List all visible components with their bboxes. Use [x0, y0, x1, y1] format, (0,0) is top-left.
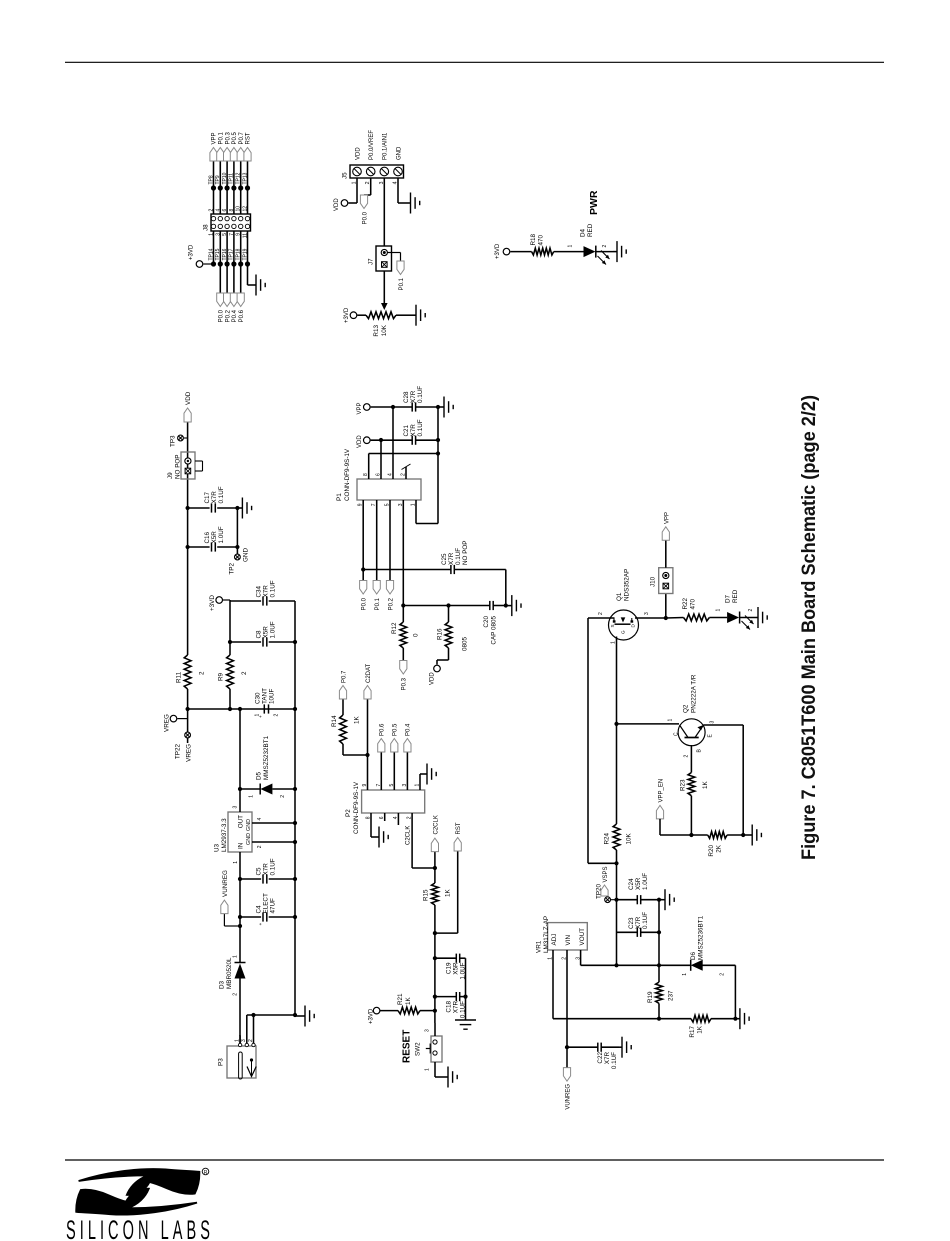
ground at R20 [743, 834, 752, 836]
ground at R13 [412, 314, 416, 316]
node P0.5 flag [230, 148, 237, 162]
svg-text:1K: 1K [354, 715, 361, 724]
resistor R22 [666, 617, 684, 620]
svg-text:2: 2 [274, 714, 280, 717]
wire VR1 VIN line [566, 950, 568, 1047]
svg-text:CONN-DF9-9S-1V: CONN-DF9-9S-1V [344, 448, 351, 501]
svg-text:S: S [610, 624, 615, 627]
svg-text:VUNREG: VUNREG [566, 1084, 572, 1110]
svg-text:SILICON LABS: SILICON LABS [66, 1214, 214, 1241]
svg-text:C30: C30 [255, 692, 262, 704]
resistor R12 [400, 622, 407, 648]
svg-text:R9: R9 [218, 672, 225, 681]
wire U3 GND pins [252, 841, 295, 843]
svg-text:Figure 7. C8051T600 Main Board: Figure 7. C8051T600 Main Board Schematic… [798, 395, 820, 860]
svg-text:Q1: Q1 [616, 592, 623, 601]
svg-text:R19: R19 [647, 991, 654, 1003]
svg-text:GND: GND [246, 833, 252, 845]
svg-text:LM2937-3.3: LM2937-3.3 [221, 818, 228, 852]
wire P1 pin5 [389, 500, 391, 581]
svg-text:1: 1 [425, 1068, 431, 1071]
wire J8 row 6 [247, 231, 249, 285]
svg-text:2: 2 [199, 671, 206, 675]
capacitor C28 [371, 406, 393, 408]
connector P2 CONN-DF9-9S-1V [362, 790, 425, 813]
svg-text:G: G [621, 630, 626, 634]
svg-text:ADJ: ADJ [551, 934, 558, 946]
svg-text:P3: P3 [218, 1058, 225, 1066]
svg-text:1: 1 [682, 973, 688, 976]
svg-text:P0.0/VREF: P0.0/VREF [369, 130, 375, 160]
svg-text:P0.1: P0.1 [375, 597, 381, 610]
svg-text:TP11: TP11 [229, 173, 235, 185]
svg-text:C25: C25 [441, 553, 448, 565]
wire VREG junction [188, 708, 295, 710]
svg-text:Q2: Q2 [683, 704, 690, 713]
wire P1 pin3 [402, 500, 404, 622]
svg-text:2: 2 [684, 755, 690, 758]
svg-text:VOUT: VOUT [579, 928, 586, 946]
svg-text:1K: 1K [445, 888, 452, 897]
svg-text:C23: C23 [628, 917, 635, 929]
svg-text:RESET: RESET [402, 1030, 413, 1063]
svg-text:R14: R14 [331, 715, 338, 727]
ground at power rail [295, 1015, 305, 1017]
svg-text:P0.2: P0.2 [388, 597, 394, 610]
svg-text:X7R: X7R [263, 863, 270, 876]
svg-text:R: R [204, 1170, 208, 1176]
potentiometer R13 [357, 314, 366, 316]
node VPP flag [210, 148, 217, 162]
svg-text:+3VD: +3VD [495, 243, 501, 259]
svg-text:VREG: VREG [164, 714, 171, 732]
svg-text:R16: R16 [437, 628, 444, 640]
wire RST line [434, 905, 436, 1023]
svg-text:P2: P2 [345, 809, 352, 817]
svg-text:GND: GND [396, 146, 402, 160]
svg-text:X7R: X7R [263, 585, 270, 598]
svg-text:R22: R22 [682, 597, 689, 609]
node +3VD terminal at R21 [373, 1007, 380, 1014]
svg-text:3: 3 [233, 806, 239, 809]
svg-text:TP9: TP9 [215, 175, 221, 184]
node P0.3 flag at P1 [400, 661, 407, 675]
wire P3 pin1 [239, 1036, 241, 1043]
wire P2 pin5 [393, 752, 395, 790]
svg-text:1: 1 [249, 795, 255, 798]
svg-text:D6: D6 [690, 951, 697, 960]
wire VSPS gate line [616, 850, 618, 965]
svg-text:C16: C16 [204, 531, 211, 543]
node VSPS flag [601, 885, 608, 896]
svg-text:J9: J9 [167, 472, 174, 479]
testpoint TP17 [231, 261, 236, 266]
svg-text:R21: R21 [397, 993, 404, 1005]
regulator U3 LM2937-3.3 [228, 812, 252, 852]
wire VDD rail [187, 689, 189, 743]
wire VOUT node vertical [581, 964, 617, 966]
svg-text:P0.2: P0.2 [225, 309, 231, 322]
svg-text:J8: J8 [203, 224, 210, 231]
node VUNREG flag at VR1 [566, 1047, 568, 1067]
svg-text:P0.1: P0.1 [219, 131, 225, 144]
node P0.6 flag [237, 293, 244, 307]
wire J7 branch to P0.1 [387, 252, 400, 254]
wire J8 row 3 [226, 231, 228, 293]
wire P1 pin9 [362, 500, 364, 581]
svg-text:PN2222A T/R: PN2222A T/R [691, 674, 698, 713]
ground at C24 [662, 899, 665, 901]
node VDD terminal at P1 [364, 437, 371, 444]
regulator VR1 LM317LZ-AP [548, 923, 588, 950]
testpoint TP12 [238, 185, 243, 190]
svg-text:P0.4: P0.4 [406, 723, 412, 736]
capacitor C34 [230, 600, 261, 602]
svg-text:VPP: VPP [357, 402, 363, 414]
connector J8 header [211, 214, 251, 231]
node VPP_EN flag [656, 805, 663, 819]
svg-text:3: 3 [425, 1029, 431, 1032]
svg-text:1.0UF: 1.0UF [270, 621, 277, 638]
wire ground rail [294, 601, 296, 1016]
svg-text:VDD: VDD [357, 435, 363, 448]
ground at C17 [237, 507, 242, 509]
resistor R18 [510, 251, 531, 253]
testpoint TP8 [211, 185, 216, 190]
svg-text:P0.6: P0.6 [380, 723, 386, 736]
capacitor C19 [435, 957, 456, 959]
wire J5 pin2 [370, 178, 372, 195]
ground at C20 [506, 605, 512, 607]
wire C25 to ground node [505, 570, 507, 606]
wire TP2 link [236, 508, 238, 554]
svg-text:1.0UF: 1.0UF [218, 526, 225, 543]
node P0.0 flag at J5 [360, 195, 367, 209]
node P0.2 flag [224, 293, 231, 307]
resistor R20 [691, 834, 707, 836]
node +3VD terminal at PWR [503, 248, 510, 255]
svg-text:R11: R11 [176, 671, 183, 683]
node +3VD terminal [216, 597, 223, 604]
svg-text:GND: GND [246, 819, 252, 831]
svg-text:IN: IN [238, 842, 245, 849]
svg-text:VSPS: VSPS [603, 866, 609, 882]
wire +3VD rail [229, 689, 231, 709]
svg-text:X7R: X7R [448, 552, 455, 565]
svg-text:TP22: TP22 [175, 744, 182, 760]
svg-text:4: 4 [257, 818, 263, 821]
node P0.1 flag [217, 148, 224, 162]
svg-text:10UF: 10UF [269, 688, 276, 704]
testpoint TP16 [225, 261, 230, 266]
svg-text:R24: R24 [604, 832, 611, 844]
svg-text:0805: 0805 [462, 636, 469, 651]
svg-text:X7R: X7R [635, 916, 642, 929]
svg-text:C8: C8 [256, 630, 263, 639]
svg-text:P0.0: P0.0 [219, 309, 225, 322]
testpoint TP10 [225, 185, 230, 190]
wire J5 pin1 to VDD [356, 178, 358, 203]
svg-text:P0.3: P0.3 [402, 677, 408, 690]
svg-text:3: 3 [644, 612, 650, 615]
ground at P2 pin8 [374, 836, 379, 838]
svg-text:2: 2 [280, 795, 286, 798]
svg-text:0.1UF: 0.1UF [270, 580, 277, 597]
svg-text:VPP: VPP [212, 132, 218, 144]
svg-text:X5R: X5R [263, 626, 270, 639]
svg-text:2: 2 [602, 245, 608, 248]
svg-text:VR1: VR1 [536, 940, 543, 953]
wire J5 pin3 to J7 [383, 178, 385, 246]
svg-text:C28: C28 [403, 391, 410, 403]
bottom rule [65, 1159, 884, 1161]
svg-text:X7R: X7R [604, 1052, 611, 1065]
svg-text:LM317LZ-AP: LM317LZ-AP [543, 916, 550, 953]
svg-text:D7: D7 [725, 594, 732, 603]
svg-text:R15: R15 [423, 889, 430, 901]
node P0.0 flag at P1 [360, 581, 367, 595]
capacitor C5 [240, 878, 261, 880]
node VDD terminal at R16 [434, 665, 441, 672]
resistor R21 [380, 1010, 398, 1012]
diode D3 MBR0520L [239, 979, 241, 1045]
wire U3 IN line [239, 860, 241, 957]
svg-text:RST: RST [456, 822, 462, 834]
svg-text:0: 0 [413, 633, 420, 637]
svg-text:R17: R17 [689, 1026, 696, 1038]
node P0.4 flag [404, 739, 411, 753]
wire P2 pin2 C2CLK [411, 813, 413, 868]
node P0.7 flag [237, 148, 244, 162]
svg-text:+3VD: +3VD [369, 1008, 375, 1024]
svg-text:0.1UF: 0.1UF [218, 486, 225, 503]
svg-text:D4: D4 [580, 228, 587, 237]
wire P1 pin6 [380, 440, 382, 479]
svg-text:D3: D3 [219, 980, 226, 989]
wire P1 pin1 to ground link [415, 500, 417, 524]
jumper J10 [665, 594, 667, 619]
svg-text:+3VD: +3VD [209, 595, 216, 611]
svg-text:1: 1 [233, 861, 239, 864]
svg-text:P0.0: P0.0 [362, 597, 368, 610]
svg-text:1.0UF: 1.0UF [642, 873, 649, 890]
svg-text:10K: 10K [381, 324, 388, 336]
ground at D4 [613, 251, 617, 253]
resistor R14 [342, 744, 344, 755]
testpoint TP18 [238, 261, 243, 266]
svg-text:1K: 1K [697, 1025, 704, 1034]
node P0.4 flag [230, 293, 237, 307]
svg-text:470: 470 [690, 598, 697, 609]
wire P2 pin4 stub [397, 813, 399, 825]
svg-text:VUNREG: VUNREG [222, 870, 229, 897]
wire VREG to TP22 [186, 733, 189, 736]
svg-text:VPP: VPP [664, 512, 670, 524]
svg-text:P0.1/AIN1: P0.1/AIN1 [383, 132, 389, 160]
testpoint TP3 [184, 437, 188, 439]
svg-text:R18: R18 [530, 233, 537, 245]
svg-text:P0.1: P0.1 [399, 277, 405, 290]
wire P3 ground pins [246, 1015, 248, 1043]
svg-text:VREG: VREG [186, 744, 193, 762]
svg-text:2: 2 [748, 609, 754, 612]
svg-text:C2DAT: C2DAT [366, 663, 372, 683]
svg-text:NDS352AP: NDS352AP [624, 569, 631, 601]
top rule [65, 61, 884, 63]
wire J8 row 4 [233, 231, 235, 293]
svg-text:2: 2 [233, 993, 239, 996]
capacitor C20 CAP 0805 [403, 605, 489, 607]
diode D5 zener MMSZ5232BT1 [240, 788, 260, 790]
svg-text:P0.6: P0.6 [239, 309, 245, 322]
svg-text:TP17: TP17 [229, 248, 235, 260]
transistor Q2 PN2222A [678, 719, 705, 746]
svg-text:C24: C24 [628, 878, 635, 890]
wire SW2 to ground [434, 1062, 436, 1077]
svg-text:TP14: TP14 [208, 248, 214, 260]
wire Q1 source line [587, 618, 589, 863]
svg-text:SW2: SW2 [415, 1042, 422, 1056]
svg-text:0.1UF: 0.1UF [455, 548, 462, 565]
wire P2 pin3 [406, 752, 408, 790]
ground at C22 [619, 1046, 622, 1048]
wire J8 row 5 [240, 231, 242, 293]
testpoint TP15 [218, 261, 223, 266]
svg-text:R13: R13 [373, 325, 380, 337]
svg-text:TANT: TANT [262, 688, 269, 704]
capacitor C4 (ELECT) [240, 916, 261, 918]
resistor R9 [227, 655, 234, 689]
svg-text:C18: C18 [446, 1001, 453, 1013]
LED D4 RED [554, 251, 584, 253]
svg-text:TP13: TP13 [242, 172, 248, 184]
svg-text:P0.0: P0.0 [362, 211, 368, 224]
svg-text:X5R: X5R [453, 962, 460, 975]
svg-text:0.1UF: 0.1UF [417, 419, 424, 436]
svg-text:VDD: VDD [430, 672, 436, 685]
svg-text:P1: P1 [336, 493, 343, 501]
testpoint TP11 [231, 185, 236, 190]
svg-text:R23: R23 [680, 779, 687, 791]
svg-text:2: 2 [241, 671, 248, 675]
svg-text:C22: C22 [597, 1052, 604, 1064]
capacitor C24 [617, 899, 638, 901]
svg-text:VDD: VDD [185, 391, 192, 405]
svg-text:C21: C21 [403, 424, 410, 436]
wire RC ground rail [465, 958, 467, 1017]
wire P2 pin9 C2DAT [367, 699, 369, 790]
svg-text:TP8: TP8 [208, 175, 214, 184]
connector J5 terminal block [350, 165, 404, 178]
wire P2 pin6 stub [384, 813, 386, 821]
svg-text:1: 1 [716, 609, 722, 612]
svg-text:X5R: X5R [211, 531, 218, 544]
connector P3 power jack [227, 1046, 256, 1078]
testpoint TP19 [245, 261, 250, 266]
svg-text:J5: J5 [342, 172, 349, 179]
wire P1 pin7 [376, 500, 378, 581]
testpoint TP2 / GND [235, 554, 241, 560]
svg-text:237: 237 [668, 990, 675, 1001]
wire Q1 drain [635, 617, 666, 619]
svg-text:X7R: X7R [453, 1001, 460, 1014]
node VUNREG flag (input) [224, 925, 240, 927]
svg-text:0.1UF: 0.1UF [270, 858, 277, 875]
svg-text:X7R: X7R [410, 390, 417, 403]
svg-text:TP19: TP19 [242, 248, 248, 260]
svg-text:P0.3: P0.3 [225, 131, 231, 144]
svg-text:P0.7: P0.7 [341, 670, 347, 683]
testpoint TP13 [245, 185, 250, 190]
wire P1 pin4 to VPP [392, 407, 394, 479]
LED D7 RED [709, 617, 727, 619]
svg-text:10K: 10K [626, 832, 633, 844]
svg-text:P0.7: P0.7 [239, 131, 245, 144]
node RST flag [244, 148, 251, 162]
resistor R15 [432, 883, 439, 905]
svg-text:D5: D5 [256, 771, 263, 780]
svg-text:TP10: TP10 [222, 172, 228, 184]
ground at RC rail [465, 1017, 467, 1020]
svg-text:X7R: X7R [410, 424, 417, 437]
svg-text:RED: RED [587, 223, 594, 237]
node P0.6 flag [378, 739, 385, 753]
testpoint TP9 [218, 185, 223, 190]
svg-text:1: 1 [568, 245, 574, 248]
svg-text:1: 1 [611, 641, 617, 644]
wire J8 row 1 [213, 231, 215, 264]
node VREG terminal [170, 715, 177, 722]
capacitor C21 [371, 439, 412, 441]
wire P2 pin1 to ground [419, 774, 421, 790]
svg-text:P0.5: P0.5 [393, 723, 399, 736]
svg-text:R12: R12 [391, 622, 398, 634]
svg-text:U3: U3 [214, 843, 221, 852]
wire P2 pin7 [380, 752, 382, 790]
resistor R23 [690, 745, 692, 773]
wire P1 pin8 [368, 454, 370, 480]
svg-text:TP3: TP3 [170, 435, 177, 447]
testpoint TP14 [211, 261, 216, 266]
jumper J9 (NO POP) [181, 452, 195, 479]
svg-text:C17: C17 [204, 491, 211, 503]
registered trademark mark [202, 1168, 209, 1175]
capacitor C17 [186, 506, 190, 510]
resistor R11 [184, 655, 191, 689]
svg-text:3: 3 [710, 721, 716, 724]
wire P1 pin2 (NC) [405, 467, 407, 479]
svg-text:VIN: VIN [565, 935, 572, 946]
resistor R24 [613, 824, 620, 850]
svg-text:2: 2 [720, 973, 726, 976]
node P0.0 flag [217, 293, 224, 307]
svg-text:MBR0520L: MBR0520L [226, 957, 233, 989]
svg-text:0.1UF: 0.1UF [417, 386, 424, 403]
connector P1 CONN-DF9-9S-1V [357, 479, 421, 500]
svg-text:P0.5: P0.5 [232, 131, 238, 144]
svg-text:1K: 1K [405, 996, 412, 1005]
resistor R16 [445, 622, 452, 648]
svg-text:C2CLK: C2CLK [433, 815, 439, 834]
capacitor C30 (TANT) [263, 704, 265, 713]
switch SW2 RESET [431, 1036, 442, 1062]
resistor R19 [656, 982, 663, 1003]
node C2DAT flag [364, 686, 371, 700]
ground at C28 [440, 406, 444, 408]
svg-text:C: C [674, 732, 680, 736]
svg-text:J7: J7 [368, 258, 375, 265]
svg-text:X5R: X5R [635, 877, 642, 890]
